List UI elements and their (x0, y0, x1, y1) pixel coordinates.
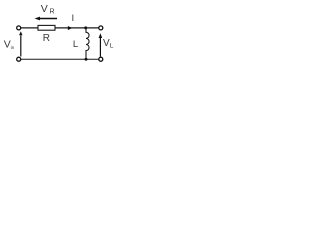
svg-text:R: R (43, 33, 50, 44)
arrow V_L (up) (99, 38, 101, 57)
svg-text:I: I (72, 13, 75, 24)
svg-text:in: in (11, 45, 15, 51)
svg-text:V: V (41, 3, 48, 15)
arrow V_R (pointing left) (39, 18, 57, 20)
arrow V_in (up) (20, 36, 22, 57)
wire top-left segment (21, 27, 38, 29)
terminal top-left (17, 26, 21, 30)
svg-text:R: R (50, 9, 55, 16)
svg-text:L: L (73, 39, 78, 50)
resistor R (38, 25, 55, 30)
wire top-right segment (55, 27, 99, 29)
terminal top-right (99, 26, 103, 30)
wire bottom (21, 58, 99, 60)
inductor L (86, 28, 89, 59)
current arrowhead I (68, 26, 73, 30)
terminal bottom-left (17, 57, 21, 61)
terminal bottom-right (99, 57, 103, 61)
svg-text:L: L (110, 43, 114, 50)
node junction bottom (85, 58, 88, 61)
node junction top (84, 26, 87, 29)
